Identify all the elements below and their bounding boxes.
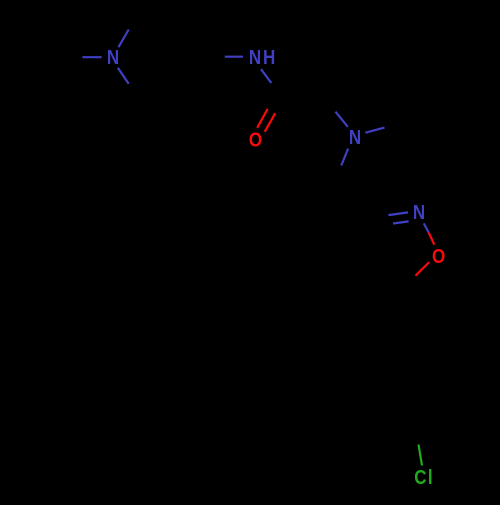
wire C=O double bond line 1: [257, 109, 268, 128]
wire NH-C(=O) bond stub (lower right): [261, 69, 271, 83]
svg-text:N: N: [249, 46, 261, 69]
node N1 piperidine nitrogen label: [107, 46, 119, 69]
wire C3=N4 double bond inner line stub: [393, 221, 409, 223]
wire O2-C5 bond stub (lower left): [416, 262, 430, 276]
node N2 amide NH label: [249, 46, 275, 69]
wire N3-C5' bond stub (right): [365, 128, 384, 133]
svg-text:N: N: [413, 201, 425, 224]
node N4 isoxazole nitrogen label: [413, 201, 425, 224]
wire C-Cl bond stub: [419, 445, 423, 466]
wire N3-C2' bond stub (upper left): [336, 112, 348, 127]
node O2 isoxazole oxygen label: [432, 245, 445, 268]
wire N1-methyl bond stub: [82, 56, 101, 58]
wire N4-O2 bond red half: [429, 232, 435, 244]
svg-text:H: H: [263, 46, 275, 69]
wire N1-C6 ring bond stub (lower right): [118, 68, 129, 84]
wire N3-CH2 bond stub (lower left): [341, 149, 348, 166]
node Cl chlorine label: [414, 465, 432, 488]
node N3 pyrrolidine nitrogen label: [349, 126, 361, 149]
svg-text:O: O: [249, 128, 262, 151]
svg-text:O: O: [432, 245, 445, 268]
wire C4-NH bond stub (left): [225, 56, 243, 58]
node O1 carbonyl oxygen label: [249, 128, 262, 151]
svg-text:l: l: [428, 465, 433, 488]
svg-text:N: N: [107, 46, 119, 69]
wire N4-O2 bond blue half: [424, 223, 429, 232]
svg-text:N: N: [349, 126, 361, 149]
wire N1-C2 ring bond stub (upper right): [119, 30, 129, 48]
wire C3=N4 double bond main line stub: [388, 212, 408, 215]
svg-text:C: C: [414, 465, 426, 488]
wire C=O double bond line 2: [265, 113, 276, 132]
